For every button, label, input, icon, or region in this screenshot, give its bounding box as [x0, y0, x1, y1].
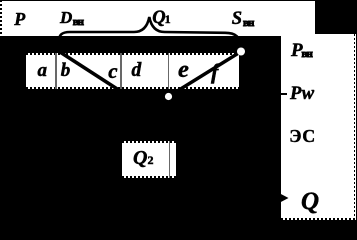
cell letter c — [108, 61, 117, 82]
label P_вн (panel) — [291, 41, 303, 60]
diagonal cut e-f (between node dots) — [169, 52, 242, 97]
cell letter a — [38, 61, 48, 80]
separator c|d — [120, 53, 122, 89]
subscript вн of D — [73, 17, 83, 28]
Q2 tape piece — [122, 141, 176, 178]
label Q1 — [152, 9, 170, 28]
separator inside Q2 piece — [169, 141, 171, 178]
cells tape strip — [26, 53, 239, 89]
label ЭС — [289, 127, 316, 145]
torn bottom edge cells strip — [26, 87, 239, 89]
diagonal cut b-c — [60, 52, 118, 90]
label Pw — [290, 85, 315, 104]
separator d|e — [168, 53, 170, 89]
label D — [60, 9, 72, 26]
separator a|b — [55, 53, 57, 89]
torn top edge Q2 piece — [122, 141, 176, 143]
torn bottom edge Q2 piece — [122, 176, 176, 178]
torn top edge cells strip — [26, 53, 239, 55]
node dot bottom — [165, 93, 172, 100]
cell letter f — [211, 61, 218, 83]
curly brace over tape — [59, 17, 241, 50]
label P — [14, 10, 25, 28]
cell letter e — [178, 58, 189, 83]
right panel (white) — [281, 34, 356, 220]
tick before Pw — [278, 93, 287, 95]
subscript вн of S — [243, 18, 253, 29]
torn bottom edge of right panel — [281, 218, 356, 220]
label Q2 — [133, 148, 153, 168]
arrow before Q — [279, 193, 289, 203]
subscript вн of panel P — [302, 49, 312, 60]
cell letter b — [61, 61, 71, 80]
label Q (panel) — [301, 189, 319, 214]
torn left edge Q2 piece — [120, 141, 122, 178]
cell letter d — [132, 61, 142, 81]
torn right edge of right panel — [354, 34, 356, 220]
label S — [232, 10, 242, 29]
torn left edge cells strip — [24, 53, 26, 89]
torn left edge of top strip — [0, 0, 2, 36]
top border line — [0, 0, 357, 1]
node dot top right — [237, 48, 245, 56]
tape strip top (white band) — [0, 0, 315, 36]
